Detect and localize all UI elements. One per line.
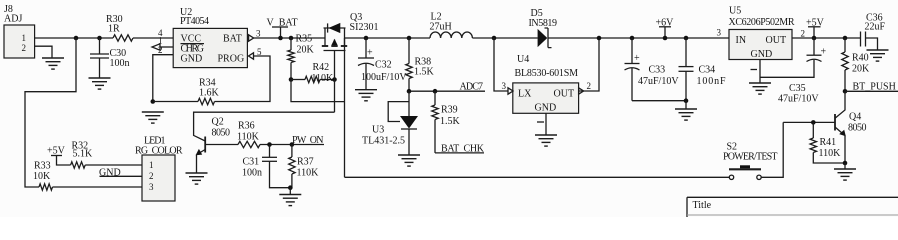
svg-text:U3: U3: [372, 125, 384, 136]
svg-text:OUT: OUT: [766, 35, 787, 46]
svg-text:R39: R39: [441, 105, 458, 116]
resistor R40: [842, 36, 870, 92]
wire GND junction to R34: [153, 101, 198, 103]
svg-text:8050: 8050: [848, 123, 867, 134]
node C31 junction: [267, 142, 272, 147]
node R39 junction: [433, 89, 438, 94]
wire R32 to LED pin1: [85, 164, 142, 166]
channel dashes: [322, 45, 328, 47]
power +5V (LED): [47, 146, 71, 166]
svg-text:R42: R42: [313, 62, 330, 73]
svg-text:110K: 110K: [819, 148, 842, 159]
svg-text:R35: R35: [296, 34, 313, 45]
svg-text:3: 3: [717, 28, 722, 38]
collector wire from gate line: [194, 112, 335, 141]
wire drain down to S2 feed: [344, 38, 346, 177]
ground (Q4): [834, 169, 856, 180]
connector J8: [4, 4, 35, 58]
ground (J8): [42, 58, 64, 69]
ground (Q2 emitter): [186, 173, 208, 184]
ground (C31/R37): [279, 195, 301, 206]
svg-text:1: 1: [158, 36, 163, 46]
svg-text:3: 3: [149, 182, 154, 192]
node R37 junction: [290, 142, 295, 147]
transistor Q2 8050: [194, 112, 335, 173]
switch S2 POWER/TEST: [723, 142, 778, 180]
svg-text:TL431-2.5: TL431-2.5: [362, 136, 405, 147]
svg-text:PT4054: PT4054: [180, 16, 209, 27]
ground (C33/C34): [675, 109, 697, 120]
svg-text:IN5819: IN5819: [529, 18, 558, 29]
wire D5 cathode rail: [548, 37, 729, 39]
svg-text:Q4: Q4: [849, 112, 861, 123]
resistor R30: [113, 35, 133, 41]
svg-text:PROG: PROG: [218, 54, 245, 65]
svg-text:ADC7: ADC7: [460, 82, 484, 93]
resistor R38: [406, 36, 435, 91]
svg-text:R40: R40: [852, 53, 869, 64]
capacitor C34: [679, 36, 726, 101]
node A junction (R35/R42): [289, 77, 294, 82]
title block: [687, 197, 898, 217]
resistor R42: [291, 79, 305, 81]
capacitor C33: [625, 36, 680, 101]
source stub: [324, 28, 326, 46]
wire node A to S2 feed: [291, 80, 345, 102]
svg-text:OUT: OUT: [554, 89, 575, 100]
gate bar: [324, 50, 346, 52]
svg-text:BAT_CHK: BAT_CHK: [441, 144, 485, 155]
svg-text:R37: R37: [297, 157, 314, 168]
resistor R37: [289, 145, 319, 188]
shunt U3 TL431-2.5: [362, 91, 418, 155]
wire PROG loop: [215, 56, 271, 102]
svg-text:Title: Title: [693, 200, 712, 211]
svg-text:2: 2: [801, 29, 806, 39]
svg-text:U5: U5: [729, 6, 741, 17]
wire drain to rail: [345, 37, 431, 39]
wire L2 to D5: [472, 37, 537, 39]
ground (U5): [749, 83, 771, 94]
capacitor C31: [242, 145, 290, 188]
svg-text:RG_COLOR: RG_COLOR: [135, 146, 183, 157]
svg-text:Q2: Q2: [212, 117, 224, 128]
svg-text:2: 2: [22, 43, 27, 53]
power +5V: [806, 18, 825, 41]
node U2 GND junction: [151, 99, 156, 104]
svg-text:C35: C35: [789, 83, 806, 94]
svg-text:100uF/10V: 100uF/10V: [361, 72, 407, 83]
ground (C36): [867, 50, 889, 61]
node gate junction: [332, 77, 337, 82]
svg-text:+: +: [821, 47, 827, 58]
wire C33/C34 ground bus: [632, 100, 686, 102]
svg-text:8050: 8050: [212, 128, 231, 139]
transistor Q4 8050: [835, 91, 867, 163]
svg-text:R33: R33: [34, 161, 51, 172]
gate lead: [334, 51, 336, 80]
svg-text:ADJ: ADJ: [4, 14, 22, 25]
svg-text:1.5K: 1.5K: [440, 116, 461, 127]
resistor R41: [810, 122, 845, 163]
svg-text:100n: 100n: [242, 168, 262, 179]
node R41 junction: [811, 120, 816, 125]
svg-text:47uF/10V: 47uF/10V: [778, 94, 819, 105]
svg-text:POWER/TEST: POWER/TEST: [723, 152, 778, 163]
capacitor C30: [90, 38, 130, 78]
node BT_PUSH net: [843, 89, 848, 94]
capacitor C36: [861, 13, 886, 51]
svg-text:110K: 110K: [311, 73, 334, 84]
node PW_ON net: [260, 144, 324, 146]
pin 5 PROG chevron: [249, 53, 254, 59]
wire J8 pin2: [35, 46, 52, 58]
svg-text:100n: 100n: [110, 58, 130, 69]
pin 1 CHRG stub: [160, 46, 173, 48]
ground (U2 GND): [142, 112, 164, 123]
svg-text:C31: C31: [243, 157, 260, 168]
svg-text:2: 2: [149, 171, 154, 181]
node LX junction: [492, 36, 497, 41]
svg-text:GND: GND: [99, 167, 121, 178]
wire BAT to Q3: [254, 37, 325, 39]
svg-text:GND: GND: [181, 54, 203, 65]
svg-text:R41: R41: [820, 137, 837, 148]
ground (C32): [355, 90, 377, 101]
svg-text:5.1K: 5.1K: [73, 149, 94, 160]
svg-text:2: 2: [158, 45, 163, 55]
wire Q2 base to R36: [205, 144, 238, 146]
wire J8 pin1 to rail: [35, 37, 113, 39]
regulator U5 XC6206P502MR: [729, 6, 795, 61]
svg-text:SI2301: SI2301: [350, 22, 379, 33]
wire S2 feed horizontal: [345, 176, 730, 178]
inductor L2: [430, 12, 473, 39]
node BAT_CHK net: [435, 152, 484, 154]
wire S2 right to Q4 base: [761, 122, 783, 177]
bulk arrow: [334, 40, 336, 47]
node C30 junction: [97, 36, 102, 41]
svg-text:C33: C33: [649, 65, 666, 76]
svg-text:20K: 20K: [852, 64, 870, 75]
svg-text:47uF/10V: 47uF/10V: [638, 76, 679, 87]
resistor R32: [71, 162, 86, 168]
node C31/R37 ground junction: [288, 185, 293, 190]
svg-text:BL8530-601SM: BL8530-601SM: [515, 68, 579, 79]
node R35 rail junction: [289, 36, 294, 41]
svg-text:100nF: 100nF: [697, 76, 726, 87]
node J8 pin1 junction: [74, 36, 79, 41]
ground (C30): [89, 78, 111, 89]
svg-text:R36: R36: [238, 121, 255, 132]
pin 3 BAT chevron: [249, 35, 254, 41]
svg-text:U4: U4: [517, 54, 529, 65]
svg-text:22uF: 22uF: [865, 22, 886, 33]
pin 2 GND wire: [153, 55, 173, 102]
svg-text:1: 1: [22, 33, 27, 43]
wire rail to LX pin3: [494, 38, 508, 91]
wire J8 net down-left to R33: [25, 38, 76, 187]
svg-text:IN: IN: [736, 35, 747, 46]
svg-text:GND: GND: [751, 49, 773, 60]
U4 GND pin: [545, 113, 547, 135]
wire R33 to LED pin3: [53, 186, 143, 188]
wire R30 to U2: [133, 37, 173, 39]
power +6V: [656, 18, 675, 41]
resistor R35: [290, 38, 292, 50]
svg-text:BAT: BAT: [223, 34, 242, 45]
svg-text:LX: LX: [518, 89, 532, 100]
resistor R39: [432, 91, 461, 153]
U5 GND pin: [759, 60, 761, 84]
resistor R36: [238, 141, 260, 147]
ground (U3): [398, 155, 420, 166]
body diode line: [324, 27, 346, 29]
svg-text:C32: C32: [375, 60, 392, 71]
svg-text:20K: 20K: [297, 45, 315, 56]
wire Q4 base: [783, 121, 835, 123]
node ADC7 net: [409, 90, 485, 92]
transistor Q3 SI2301: [322, 12, 379, 80]
svg-text:1: 1: [149, 160, 154, 170]
svg-text:110K: 110K: [237, 132, 260, 143]
op IC U2 PT4054: [173, 7, 247, 68]
svg-text:PW_ON: PW_ON: [292, 135, 324, 146]
svg-text:3: 3: [256, 29, 261, 39]
capacitor C35: [760, 38, 827, 105]
node GND net label (LED pin2): [100, 175, 143, 177]
ground (U4): [535, 135, 557, 146]
capacitor C32: [358, 36, 407, 90]
svg-text:+: +: [367, 48, 373, 59]
svg-text:2: 2: [587, 81, 592, 91]
svg-text:XC6206P502MR: XC6206P502MR: [729, 17, 795, 28]
drain stub: [344, 28, 346, 46]
svg-text:+: +: [634, 53, 640, 64]
wire gate to Q2 collector line: [334, 80, 336, 113]
connector LED1 RG_COLOR: [135, 136, 183, 202]
svg-text:1R: 1R: [108, 24, 120, 35]
svg-text:110K: 110K: [297, 168, 320, 179]
wire OUT pin2 up to rail: [579, 38, 599, 91]
wire U5 OUT pin2: [792, 37, 861, 39]
emitter: [197, 150, 205, 155]
svg-text:1.6K: 1.6K: [199, 88, 220, 99]
svg-text:1.5K: 1.5K: [414, 67, 435, 78]
svg-text:BT_PUSH: BT_PUSH: [853, 82, 896, 93]
svg-text:3: 3: [502, 81, 507, 91]
svg-text:C34: C34: [699, 65, 716, 76]
buck IC U4 BL8530-601SM: [513, 54, 579, 114]
svg-text:27uH: 27uH: [430, 22, 452, 33]
resistor R33: [39, 184, 52, 190]
svg-text:10K: 10K: [33, 171, 51, 182]
node V_BAT: [267, 18, 298, 41]
svg-text:GND: GND: [535, 103, 557, 114]
node emitter/R41 junction: [843, 161, 848, 166]
diode D5 IN5819: [529, 8, 558, 48]
base bar: [204, 137, 206, 153]
node R38/U3 junction: [407, 89, 412, 94]
resistor R34: [198, 98, 215, 104]
